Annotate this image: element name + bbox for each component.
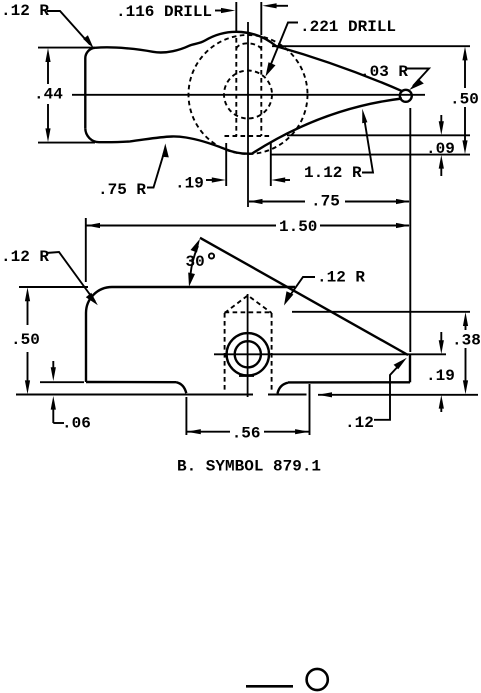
- dimension .44 top extension: [38, 47, 95, 49]
- centerline horizontal front: [214, 353, 446, 355]
- svg-text:.116 DRILL: .116 DRILL: [116, 3, 212, 21]
- svg-text:.19: .19: [175, 175, 204, 193]
- dimension .56: [187, 431, 230, 433]
- long bottom line (pad bottom + extensions): [16, 394, 253, 396]
- centerline vertical front: [247, 294, 249, 397]
- svg-text:.38: .38: [452, 332, 481, 350]
- svg-text:.56: .56: [232, 425, 261, 443]
- svg-text:.06: .06: [62, 415, 91, 433]
- leader .12 R: [47, 11, 90, 45]
- right edge of part: [409, 355, 411, 382]
- leader 1.12 R: [362, 116, 373, 173]
- svg-text:.75: .75: [311, 193, 340, 211]
- tip circle .03 R: [400, 90, 412, 102]
- dimension .38: [465, 322, 467, 330]
- left pad fillet: [177, 382, 187, 393]
- bottom edge left section: [86, 381, 177, 384]
- dimension .06 upper arrow: [52, 361, 54, 371]
- svg-text:.19: .19: [426, 367, 455, 385]
- svg-text:B. SYMBOL 879.1: B. SYMBOL 879.1: [177, 458, 321, 476]
- svg-text:.03 R: .03 R: [360, 63, 408, 81]
- part outline: top edge with waist and boss top arc and tail top curve: [95, 32, 403, 91]
- dimension .19 front arrows: [440, 332, 442, 344]
- extension line .50 right top: [272, 45, 470, 47]
- hidden drill dome: [236, 43, 261, 48]
- dimension .75 line: [249, 201, 305, 203]
- counterbore hole outer circle: [227, 333, 269, 375]
- svg-text:.12 R: .12 R: [317, 269, 365, 287]
- svg-text:.12 R: .12 R: [1, 248, 49, 266]
- leader .75 R: [147, 152, 164, 188]
- svg-text:.12: .12: [345, 414, 374, 432]
- part outline: bottom edge with waist, boss bottom arc, 1.12R tail bottom curve: [85, 99, 402, 154]
- dimension .19 top view: extension lines: [225, 143, 227, 186]
- extension line .09 top: [287, 134, 470, 136]
- dimension .50 left: top extension: [19, 286, 88, 288]
- centerline tick: [239, 375, 254, 377]
- svg-text:.221 DRILL: .221 DRILL: [300, 18, 396, 36]
- hidden drill slot right line: [260, 38, 262, 136]
- right pad fillet: [278, 383, 289, 394]
- angle arc: [190, 246, 198, 281]
- bottom symbol circle: [307, 669, 328, 690]
- bottom edge right section: [288, 381, 410, 384]
- extension line .116 right: [260, 2, 262, 35]
- svg-text:.44: .44: [34, 86, 63, 104]
- extension .38 top: [292, 311, 470, 313]
- hidden drill point cone front: [225, 295, 272, 313]
- vertical centerline top view: [247, 22, 249, 207]
- extension line .50 right bottom: [270, 154, 470, 156]
- arrow at .116 right extension: [273, 5, 288, 7]
- leader .12: [374, 361, 403, 420]
- dimension .06 lower arrow and elbow: [53, 422, 64, 424]
- extension .06: [40, 381, 84, 383]
- extension line .116 left: [235, 2, 237, 33]
- dimension .50 left: [27, 296, 29, 325]
- bottom symbol line: [246, 685, 293, 688]
- svg-text:1.50: 1.50: [279, 218, 317, 236]
- leader .221: [269, 23, 298, 70]
- dimension .56 extensions: [185, 397, 187, 435]
- leader .03 R: [407, 69, 429, 87]
- svg-text:.12 R: .12 R: [1, 2, 49, 20]
- drill circle .221 dashed: [224, 71, 272, 119]
- svg-text:.75 R: .75 R: [98, 181, 146, 199]
- hidden drill bottom line: [225, 135, 272, 137]
- boss circle dashed: [189, 35, 308, 154]
- outline: left edge, top-left radius, top edge: [86, 287, 295, 382]
- leader arrow .116 right: [215, 10, 224, 12]
- hole inner circle: [235, 341, 261, 367]
- leader .12 R front left: [46, 252, 95, 302]
- dimension .50 right: [464, 56, 466, 88]
- svg-text:.50: .50: [11, 331, 40, 349]
- svg-text:1.12 R: 1.12 R: [304, 164, 362, 182]
- dimension .75: extension right: [409, 108, 411, 352]
- dimension 1.50 line: [87, 225, 277, 227]
- horizontal centerline top view: [72, 94, 425, 96]
- part outline: left end with corner radii: [85, 48, 95, 129]
- leader .12 R front middle: [288, 277, 316, 299]
- hidden drill arch right: [271, 313, 273, 390]
- 30 degree sloped edge: [200, 238, 408, 355]
- dimension .44 bottom extension: [38, 142, 95, 144]
- dimension .09 arrows: [440, 115, 442, 125]
- dimension .44: [47, 58, 49, 84]
- svg-text:.09: .09: [426, 140, 455, 158]
- hidden drill cone base dashed: [225, 311, 272, 313]
- svg-text:.50: .50: [450, 91, 479, 109]
- dimension 1.50: left extension: [85, 218, 87, 282]
- hidden drill slot left line: [235, 38, 237, 136]
- hidden drill arch left: [224, 313, 226, 390]
